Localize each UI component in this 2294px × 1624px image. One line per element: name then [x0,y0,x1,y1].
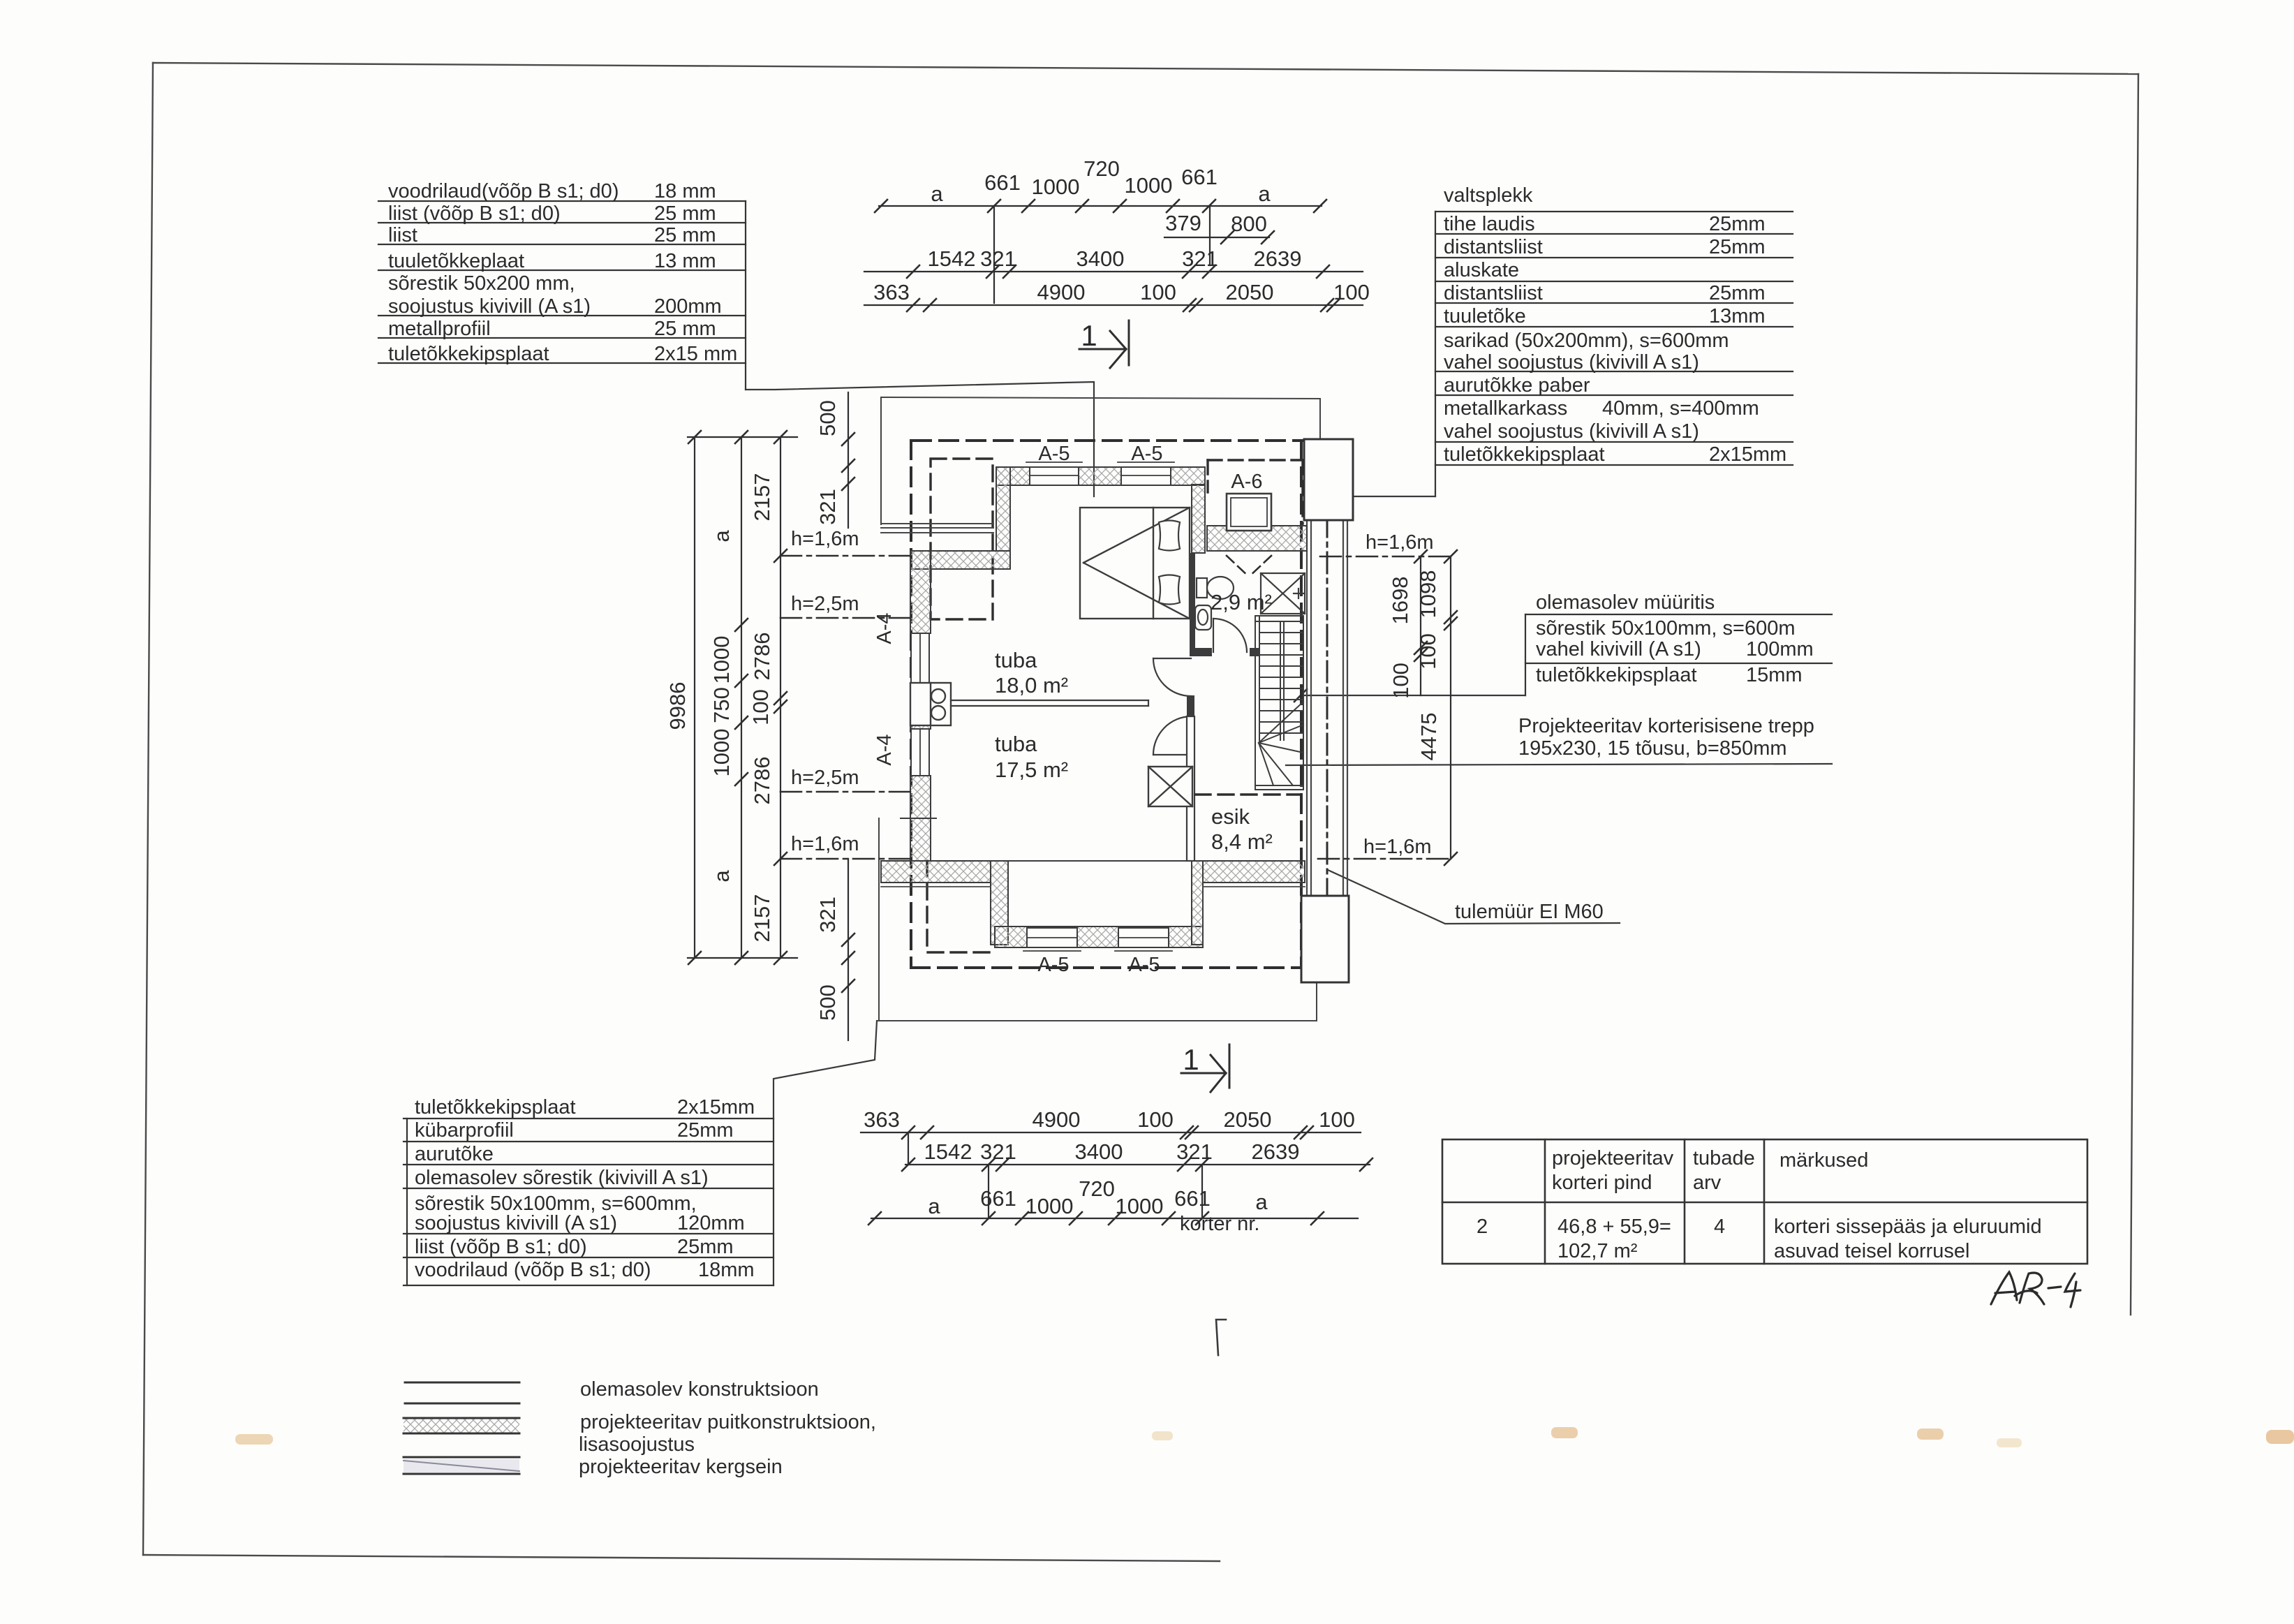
light partition wall (kergsein) [951,700,1148,706]
svg-text:13 mm: 13 mm [654,250,716,272]
top-left table text [388,180,737,365]
hatched timber walls [881,467,1307,947]
svg-text:15mm: 15mm [1746,664,1803,686]
svg-text:720: 720 [1083,156,1120,181]
svg-text:750: 750 [709,687,734,723]
svg-text:projekteeritav puitkonstruktsi: projekteeritav puitkonstruktsioon, [580,1411,876,1433]
svg-text:tuletõkkekipsplaat: tuletõkkekipsplaat [388,343,549,365]
washbasin [1195,605,1211,630]
WC toilet [1197,577,1234,599]
svg-text:3400: 3400 [1075,1139,1123,1164]
top-right roof spec table (valtsplekk) [1435,212,1793,496]
svg-text:25 mm: 25 mm [654,318,716,340]
svg-text:vahel kivivill (A s1): vahel kivivill (A s1) [1536,638,1701,660]
svg-text:100mm: 100mm [1746,638,1814,660]
svg-text:500: 500 [815,984,840,1021]
dashed line under stair [1195,793,1301,795]
window A-4 west 1 [911,633,929,683]
right height contour dash-dot lines [1318,556,1451,859]
top dimension line 3 (1542 321 3400 321 2639) [864,265,1363,278]
svg-text:esik: esik [1211,804,1250,829]
svg-text:1542: 1542 [924,1139,972,1164]
svg-text:h=1,6m: h=1,6m [1363,836,1432,858]
svg-text:661: 661 [984,170,1021,195]
svg-text:661: 661 [980,1186,1016,1211]
north wall [996,467,1205,485]
svg-text:h=1,6m: h=1,6m [791,528,859,550]
svg-text:aurutõke: aurutõke [415,1143,494,1165]
svg-text:4900: 4900 [1037,280,1086,304]
svg-text:2x15mm: 2x15mm [1709,443,1786,466]
svg-text:1: 1 [1081,319,1097,352]
window A-5 south 1 [1023,928,1081,951]
svg-text:100: 100 [1140,280,1176,304]
svg-text:2639: 2639 [1252,1139,1300,1164]
bottom dimension line 3 (a 661 1000 720 1000 661 a) [868,1212,1358,1225]
svg-text:379: 379 [1165,211,1201,235]
svg-text:321: 321 [980,1139,1016,1164]
svg-text:18 mm: 18 mm [654,180,716,202]
svg-text:363: 363 [864,1107,900,1132]
svg-text:a: a [709,530,734,542]
svg-text:a: a [1255,1190,1268,1214]
window A-6 (bathroom bay) [1227,494,1271,531]
svg-text:8,4 m²: 8,4 m² [1211,829,1273,854]
room labels [995,590,1273,854]
west wall upper return [910,551,1010,569]
leader from müüritis table to stair wall [1301,695,1525,696]
dashed headroom V over landing [1227,556,1271,577]
top dimension line 1 (a 661 1000 720 1000 661 a) [875,200,1326,303]
svg-text:korter nr.: korter nr. [1180,1213,1259,1235]
fire wall centre line (dash-dot) [1326,443,1329,899]
pillow 2 [1159,575,1180,605]
top dimension line 4 (363 4900 100 2050 100) [864,299,1363,311]
door to tuba 18,0 [1153,658,1191,696]
svg-text:2157: 2157 [750,894,774,943]
svg-text:A-5: A-5 [1038,443,1070,465]
svg-text:2157: 2157 [750,473,774,522]
svg-text:olemasolev müüritis: olemasolev müüritis [1536,591,1715,614]
svg-text:h=2,5m: h=2,5m [791,767,859,789]
bottom-left table text [415,1096,755,1281]
stair note underline leader [1286,764,1832,765]
svg-text:2050: 2050 [1226,280,1274,304]
svg-text:100: 100 [748,689,773,725]
svg-text:korteri sissepääs ja eluruumid: korteri sissepääs ja eluruumid [1774,1216,2042,1238]
svg-text:1000: 1000 [1125,173,1173,198]
small bracket mark [1216,1320,1226,1355]
svg-text:A-5: A-5 [1128,954,1160,976]
svg-text:metallprofiil: metallprofiil [388,318,491,340]
chimney block bottom [1301,896,1349,982]
svg-text:Projekteeritav korterisisene t: Projekteeritav korterisisene trepp [1518,715,1814,737]
svg-text:363: 363 [873,280,910,304]
svg-text:4: 4 [1714,1216,1725,1238]
svg-text:18mm: 18mm [698,1259,755,1281]
svg-text:1000: 1000 [709,636,734,684]
svg-text:17,5 m²: 17,5 m² [995,758,1068,782]
svg-text:2,9 m²: 2,9 m² [1211,590,1272,614]
svg-text:olemasolev sõrestik (kivivill: olemasolev sõrestik (kivivill A s1) [415,1167,709,1189]
bathroom west wall [1190,553,1195,648]
svg-text:2786: 2786 [750,633,774,681]
svg-text:tuletõkkekipsplaat: tuletõkkekipsplaat [1536,664,1697,686]
svg-text:18,0 m²: 18,0 m² [995,673,1068,697]
bottom-right table text [1477,1147,2042,1262]
svg-text:25mm: 25mm [1709,282,1766,304]
svg-text:projekteeritav: projekteeritav [1552,1147,1674,1169]
svg-text:25mm: 25mm [1709,236,1766,258]
bed [1080,508,1190,619]
svg-text:aurutõkke paber: aurutõkke paber [1444,374,1590,397]
right dim labels (rotated) [1388,570,1441,761]
svg-text:aluskate: aluskate [1444,259,1519,281]
legend text [579,1378,876,1478]
svg-text:321: 321 [1176,1139,1213,1164]
svg-text:distantsliist: distantsliist [1444,236,1543,258]
bottom dimension line 2 (1542 321 3400 321 2639) [902,1132,1372,1218]
legend: projected timber construction symbol [404,1418,519,1433]
window labels [1037,443,1262,976]
svg-text:100: 100 [1319,1107,1355,1132]
svg-text:500: 500 [815,400,840,436]
svg-text:25mm: 25mm [677,1119,734,1142]
svg-text:321: 321 [815,896,840,933]
svg-text:voodrilaud (võõp B s1; d0): voodrilaud (võõp B s1; d0) [415,1259,651,1281]
height labels (left) [791,528,859,855]
svg-text:a: a [928,1194,940,1218]
inner dashed corner (bottom-left) [927,861,990,952]
pillow 1 [1159,521,1180,551]
svg-text:tihe laudis: tihe laudis [1444,213,1535,235]
svg-text:liist (võõp B s1; d0): liist (võõp B s1; d0) [388,202,561,225]
svg-text:1: 1 [1183,1043,1199,1076]
500/321 chain (bottom) [842,859,854,1040]
svg-text:A-5: A-5 [1037,954,1069,976]
svg-text:2050: 2050 [1224,1107,1272,1132]
svg-text:4475: 4475 [1416,713,1441,761]
svg-text:321: 321 [1182,246,1218,271]
bottom-right summary table [1442,1139,2087,1264]
vent shaft box in esik [1148,767,1192,806]
left dim labels (rotated) [665,473,774,943]
svg-text:661: 661 [1174,1186,1211,1211]
svg-text:1000: 1000 [1026,1194,1074,1218]
west wall of tuba 18,0 [910,551,931,633]
svg-text:321: 321 [980,246,1016,271]
existing stairwell walls (right side) [1307,520,1347,896]
svg-text:tuuletõke: tuuletõke [1444,305,1526,327]
west wall between windows (stove back) [910,683,931,729]
svg-text:661: 661 [1181,165,1218,189]
scan stains (yellowish) [235,1427,2294,1447]
svg-text:1098: 1098 [1416,570,1440,619]
svg-text:2639: 2639 [1254,246,1302,271]
right vertical dims 1698/100 [1414,550,1427,695]
svg-text:olemasolev konstruktsioon: olemasolev konstruktsioon [580,1378,819,1401]
left dimension chains [688,431,797,964]
500/321 chain (top) [842,392,854,528]
svg-text:1542: 1542 [928,246,976,271]
svg-text:tuba: tuba [995,732,1037,756]
svg-text:100: 100 [1416,633,1440,670]
svg-text:distantsliist: distantsliist [1444,282,1543,304]
top dimension line 2 (379 800) [1164,231,1274,244]
svg-text:h=1,6m: h=1,6m [1366,531,1434,554]
stair note text [1518,715,1814,760]
right height labels [1363,531,1434,858]
svg-text:102,7 m²: 102,7 m² [1557,1240,1638,1262]
svg-text:liist (võõp B s1; d0): liist (võõp B s1; d0) [415,1236,587,1258]
esik west wall [1187,716,1194,861]
svg-text:valtsplekk: valtsplekk [1444,184,1533,207]
bottom dimension line 1 (363 4900 100 2050 100) [861,1126,1361,1139]
svg-text:sõrestik 50x200 mm,: sõrestik 50x200 mm, [388,272,575,295]
svg-text:projekteeritav kergsein: projekteeritav kergsein [579,1456,783,1478]
shower with cross [1261,573,1305,614]
svg-text:liist: liist [388,224,417,246]
south bay east wall [1192,861,1203,945]
svg-text:25mm: 25mm [677,1236,734,1258]
south bay bottom wall [995,927,1203,947]
wall stub between doors [1187,695,1194,716]
leader from top-left table to plan wall [746,382,1094,496]
svg-text:soojustus kivivill (A s1): soojustus kivivill (A s1) [415,1212,617,1234]
svg-text:1000: 1000 [1032,175,1080,199]
svg-text:kübarprofiil: kübarprofiil [415,1119,514,1142]
esik south wall [1203,861,1305,883]
svg-text:lisasoojustus: lisasoojustus [579,1433,695,1456]
section mark 1 (top) [1079,320,1129,368]
south wall of tuba 17,5 [881,861,991,883]
roof eave outline (thin solid) [877,397,1320,1021]
svg-text:1000: 1000 [1116,1194,1164,1218]
svg-text:2x15mm: 2x15mm [677,1096,755,1119]
svg-text:arv: arv [1693,1172,1722,1194]
svg-text:asuvad teisel korrusel: asuvad teisel korrusel [1774,1240,1969,1262]
legend: existing construction symbol [405,1382,519,1403]
svg-text:800: 800 [1231,212,1267,236]
window A-5 north 1 [1026,462,1082,485]
interior face line across south bay [1008,860,1192,862]
svg-text:vahel soojustus (kivivill A s1: vahel soojustus (kivivill A s1) [1444,351,1699,374]
dashed segment right of A-6 bay [1301,460,1303,524]
north-west corner wall [996,467,1010,551]
svg-text:märkused: märkused [1779,1149,1868,1172]
AR-4 handwritten sheet number [1991,1272,2080,1307]
svg-text:40mm, s=400mm: 40mm, s=400mm [1602,397,1759,420]
bottom-left spec table [404,1119,774,1285]
svg-text:321: 321 [815,489,840,525]
svg-text:tulemüür EI M60: tulemüür EI M60 [1455,901,1604,923]
svg-text:korteri pind: korteri pind [1552,1172,1652,1194]
svg-text:a: a [931,182,943,206]
svg-text:h=1,6m: h=1,6m [791,833,859,855]
fire wall label leader [1328,870,1620,924]
svg-text:sarikad (50x200mm), s=600mm: sarikad (50x200mm), s=600mm [1444,330,1729,352]
svg-text:4900: 4900 [1033,1107,1081,1132]
top-right table text [1444,184,1786,466]
west wall of tuba 17,5 [910,776,931,861]
right vertical dims 1098/100/4475 [1444,550,1457,865]
svg-text:metallkarkass: metallkarkass [1444,397,1567,420]
stair [1255,616,1303,790]
svg-text:200mm: 200mm [654,295,722,318]
window A-5 south 2 [1115,928,1172,951]
svg-text:soojustus kivivill (A s1): soojustus kivivill (A s1) [388,295,591,318]
svg-text:3400: 3400 [1076,246,1125,271]
svg-text:25mm: 25mm [1709,213,1766,235]
inner dashed lines near A-6 bay [1208,460,1303,492]
svg-text:2x15 mm: 2x15 mm [654,343,737,365]
svg-text:A-6: A-6 [1231,471,1262,493]
bathroom north-west wall [1192,485,1205,553]
top-left material spec table [378,201,746,390]
wall joint mark on west wall [901,818,936,819]
svg-text:sõrestik 50x100mm, s=600m: sõrestik 50x100mm, s=600m [1536,617,1796,640]
leader from valtsplekk table to chimney [1353,496,1435,497]
svg-text:tuba: tuba [995,648,1037,672]
existing wall step (top-left, thin lines) [881,524,993,533]
svg-text:100: 100 [1333,280,1370,304]
svg-text:100: 100 [1137,1107,1174,1132]
svg-text:2: 2 [1477,1216,1488,1238]
svg-text:a: a [709,870,734,883]
svg-text:tuletõkkekipsplaat: tuletõkkekipsplaat [1444,443,1605,466]
svg-text:100: 100 [1389,663,1413,699]
svg-text:A-4: A-4 [873,734,896,765]
svg-text:25 mm: 25 mm [654,202,716,225]
svg-text:h=2,5m: h=2,5m [791,593,859,615]
inner dashed rectangle (top-left terrace) [931,459,993,619]
sill lines under south walls [881,886,1305,887]
legend: projected light partition symbol [404,1459,519,1472]
window A-4 west 2 [911,729,929,776]
stove block with hob [910,683,951,725]
door to tuba 17,5 [1153,716,1191,755]
leader from plan corner to bottom-left table [774,1021,877,1119]
wall over bathroom (A-6 bay) [1207,526,1307,551]
svg-text:2786: 2786 [750,757,774,805]
roof edge above (bold dashed outline) [911,441,1303,968]
bathroom door [1213,619,1247,652]
svg-text:25 mm: 25 mm [654,224,716,246]
height contour dash-dot lines (left) [780,556,912,859]
svg-text:1698: 1698 [1388,577,1412,625]
svg-text:vahel soojustus (kivivill A s1: vahel soojustus (kivivill A s1) [1444,420,1699,443]
svg-text:tuuletõkkeplaat: tuuletõkkeplaat [388,250,524,272]
svg-text:120mm: 120mm [677,1212,745,1234]
svg-text:46,8 + 55,9=: 46,8 + 55,9= [1557,1216,1671,1238]
svg-text:voodrilaud(võõp B s1; d0): voodrilaud(võõp B s1; d0) [388,180,619,202]
svg-text:tubade: tubade [1693,1147,1755,1169]
bathroom south wall [1190,648,1212,656]
svg-text:1000: 1000 [709,729,734,777]
svg-text:720: 720 [1079,1176,1115,1201]
section mark 1 (bottom) [1181,1044,1229,1092]
svg-text:9986: 9986 [665,682,690,730]
svg-text:a: a [1258,182,1271,206]
existing masonry spec table (olemasolev müüritis) [1525,614,1832,695]
svg-text:195x230, 15 tõusu, b=850mm: 195x230, 15 tõusu, b=850mm [1518,737,1787,760]
south bay west wall [991,861,1008,945]
chimney block top [1304,439,1353,520]
window A-5 north 2 [1118,462,1174,485]
svg-text:13mm: 13mm [1709,305,1766,327]
svg-text:A-5: A-5 [1131,443,1162,465]
svg-text:tuletõkkekipsplaat: tuletõkkekipsplaat [415,1096,576,1119]
